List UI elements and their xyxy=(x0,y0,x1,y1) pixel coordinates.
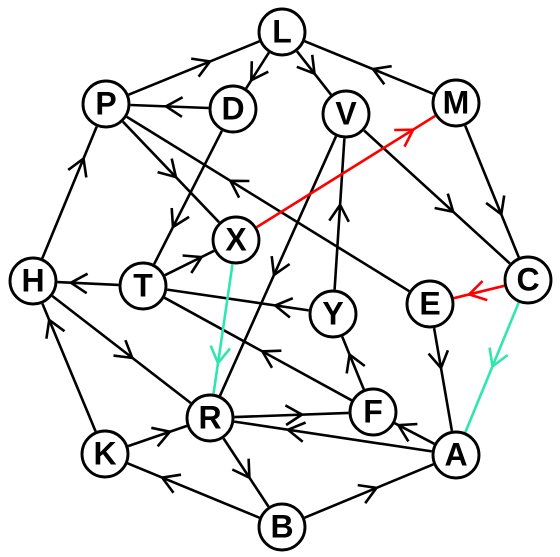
edge D->P xyxy=(130,97,208,117)
svg-text:P: P xyxy=(95,86,116,122)
edge C->E xyxy=(454,281,505,300)
svg-text:F: F xyxy=(363,394,383,430)
edge A->F xyxy=(395,423,435,444)
node D xyxy=(210,86,256,132)
edge B->A xyxy=(305,464,434,517)
edge M->L xyxy=(305,41,434,94)
edge H->R xyxy=(52,296,190,403)
node A xyxy=(433,432,479,478)
edge F->Y xyxy=(342,337,365,390)
node P xyxy=(83,81,129,127)
edge V->R xyxy=(220,136,336,395)
node T xyxy=(120,263,166,309)
edge K->R xyxy=(128,426,187,446)
edge C->A xyxy=(465,303,518,433)
edge E->A xyxy=(429,328,452,431)
node V xyxy=(323,91,369,137)
node K xyxy=(82,431,128,477)
node L xyxy=(259,9,305,55)
edge D->T xyxy=(154,131,222,264)
edge P->L xyxy=(129,41,260,94)
edge M->C xyxy=(465,126,519,258)
svg-text:A: A xyxy=(444,437,467,473)
svg-text:Y: Y xyxy=(322,296,343,332)
svg-text:L: L xyxy=(272,14,292,50)
edge Y->T xyxy=(167,290,309,318)
svg-text:B: B xyxy=(270,509,293,545)
node H xyxy=(10,258,56,304)
edge P->X xyxy=(123,122,219,223)
node E xyxy=(407,281,453,327)
svg-text:E: E xyxy=(419,286,440,322)
node F xyxy=(350,389,396,435)
edge K->H xyxy=(42,304,95,432)
node C xyxy=(505,257,551,303)
edge E->P xyxy=(127,117,409,291)
svg-text:T: T xyxy=(133,268,153,304)
node M xyxy=(433,80,479,126)
svg-text:K: K xyxy=(93,436,116,472)
edge A->R xyxy=(234,422,432,452)
svg-text:C: C xyxy=(516,262,539,298)
node Y xyxy=(310,291,356,337)
edge F->T xyxy=(164,298,351,401)
edge X->M xyxy=(257,116,435,227)
svg-text:M: M xyxy=(443,85,470,121)
edge Y->V xyxy=(329,138,349,289)
edge H->P xyxy=(42,127,96,259)
svg-text:X: X xyxy=(225,222,247,258)
svg-text:R: R xyxy=(198,400,221,436)
edge T->X xyxy=(165,251,214,275)
edge L->D xyxy=(246,53,269,89)
edge T->H xyxy=(57,274,118,294)
node X xyxy=(213,217,259,263)
edge V->C xyxy=(364,131,510,264)
node R xyxy=(187,395,233,441)
edge X->R xyxy=(211,264,233,394)
svg-text:V: V xyxy=(335,96,357,132)
edge B->K xyxy=(128,463,260,517)
edge R->B xyxy=(224,438,269,506)
edge L->V xyxy=(297,51,331,94)
edge R->F xyxy=(234,405,348,425)
node B xyxy=(259,504,305,550)
svg-text:D: D xyxy=(221,91,244,127)
svg-text:H: H xyxy=(21,263,44,299)
